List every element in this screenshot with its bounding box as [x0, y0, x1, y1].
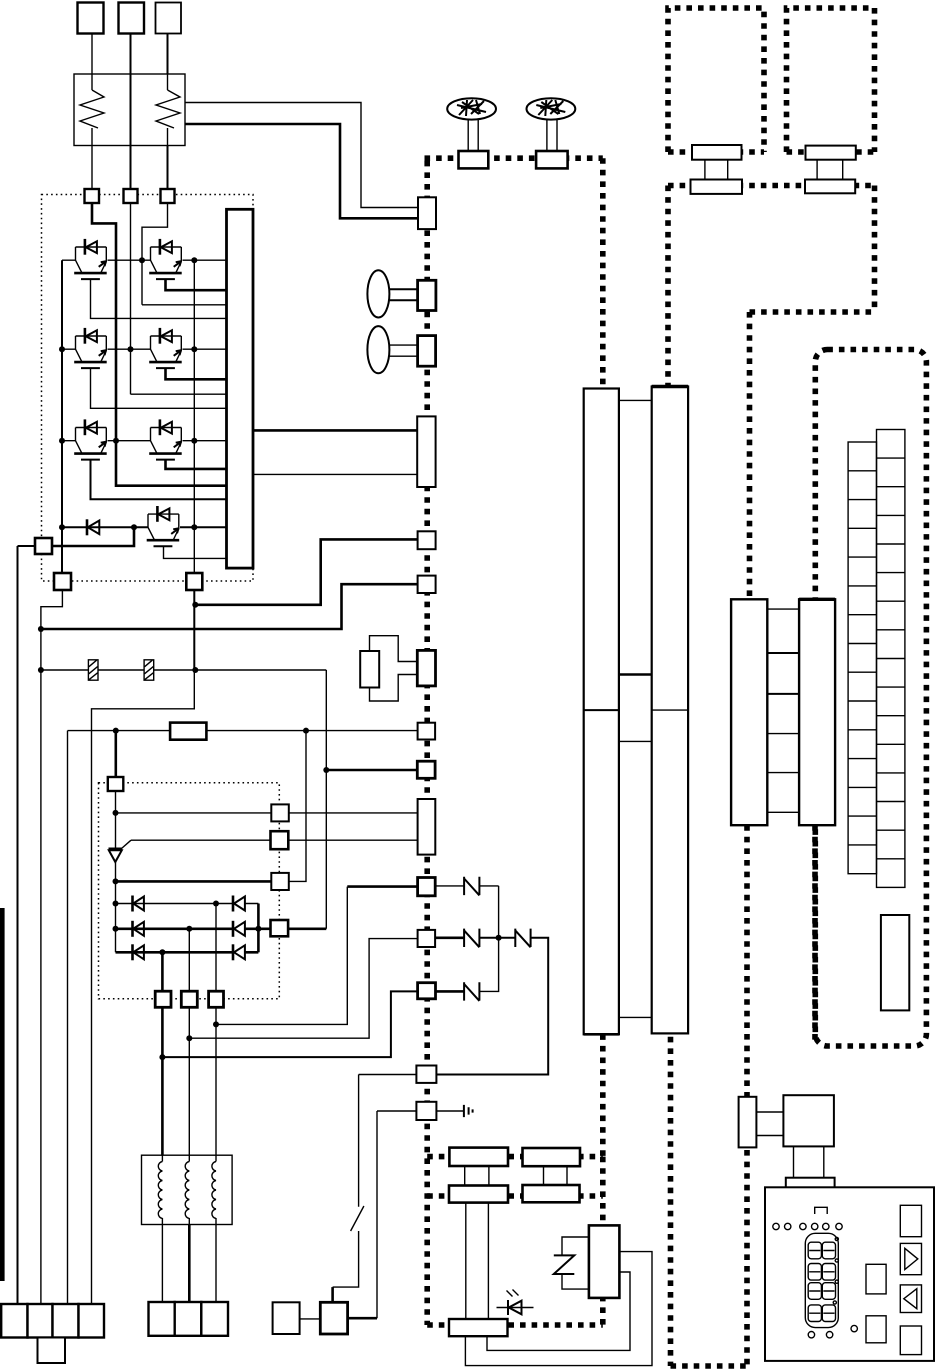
fan bay dashed row lower	[427, 1193, 603, 1199]
harness connector c11	[418, 878, 436, 896]
seven segment digits row 2	[808, 1264, 835, 1281]
DIP switch ladder left column	[848, 442, 876, 874]
diode D6 bar	[232, 944, 235, 960]
IGBT Q6	[149, 419, 182, 459]
current sensor CS1 loop	[370, 636, 418, 701]
fan bay dashed row upper	[427, 1154, 603, 1160]
node row3 bus P	[113, 438, 119, 444]
wire switch upper	[358, 1075, 360, 1207]
keypad circle right	[851, 1325, 857, 1331]
choke coil W	[212, 1155, 216, 1224]
wire harness dashed right drop to power board	[600, 158, 606, 388]
rectifier left rail	[115, 791, 117, 952]
power board mid strip bottom	[619, 1016, 652, 1018]
rectifier bottom square s4	[209, 991, 224, 1007]
fan wire outer loop	[465, 1252, 652, 1366]
fan FAN1 connector	[459, 151, 489, 168]
wire S through resistor box	[130, 74, 132, 146]
wire tap to rectifier square	[115, 731, 118, 777]
wire SqB to c10 lower	[288, 839, 417, 841]
harness connector c14	[416, 1066, 436, 1083]
module input square W	[161, 189, 175, 203]
aux box left	[273, 1302, 300, 1334]
fan connector pair 3 top	[449, 1148, 508, 1166]
rectifier dotted enclosure	[99, 783, 280, 999]
module bottom square left	[54, 573, 71, 590]
gate wire Q1 to driver	[91, 279, 227, 318]
fan FAN2 connector	[536, 151, 568, 168]
keypad bracket mark	[815, 1207, 828, 1214]
control stack mid thick dividers	[767, 653, 799, 694]
power board connector right	[652, 387, 688, 1034]
wire SqB left	[131, 839, 271, 841]
fan duct lines	[466, 1203, 489, 1319]
harness connector c6	[418, 576, 436, 593]
keypad button col right 1	[900, 1205, 921, 1236]
keypad panel	[765, 1187, 934, 1361]
keypad base pins	[795, 1194, 824, 1199]
keypad stop triangle	[904, 1289, 917, 1309]
wire resistor box to harness connector c1 lower	[185, 124, 418, 218]
node motor W tap	[213, 1021, 219, 1027]
bus W wire from square W	[142, 203, 227, 305]
seven segment digits row 1	[808, 1242, 835, 1259]
control stack mid cells	[767, 609, 799, 812]
harness dashed left drop to power board	[665, 186, 671, 387]
wire N bus to c5	[195, 539, 417, 604]
wire fuse F5 to c14	[436, 938, 548, 1075]
diode D1 bar	[131, 896, 134, 912]
motor wire U lower	[161, 1225, 163, 1303]
keypad led row	[773, 1223, 842, 1229]
IGBT Q3	[74, 328, 107, 368]
diode D3 bar	[131, 944, 134, 960]
terminal T	[156, 3, 182, 34]
keypad button mid lower	[866, 1316, 886, 1343]
power board connector left	[584, 389, 619, 1035]
LED bar	[507, 1300, 509, 1315]
keypad run triangle	[905, 1248, 918, 1269]
capacitor CT2 leads	[389, 345, 417, 356]
node fuse line mid	[192, 667, 198, 673]
IGBT Q7	[147, 506, 180, 546]
wire left drop 4	[91, 731, 93, 1304]
fan wire inner loop	[487, 1272, 630, 1350]
fan bay dashed right edge	[600, 1157, 606, 1325]
terminal block square 5	[38, 1338, 66, 1364]
node motor V tap	[186, 1035, 192, 1041]
keypad lower circles	[808, 1332, 833, 1338]
wire fuse F6 up	[479, 938, 498, 992]
keypad button col right 4	[900, 1326, 921, 1355]
wire right rail below module	[193, 590, 195, 670]
terminal block square 2	[28, 1304, 53, 1338]
power board connector right top edge	[652, 385, 688, 388]
terminal block square 3	[53, 1304, 79, 1338]
phase row 1 collector wire	[62, 259, 227, 261]
wire S to resistor box	[130, 34, 132, 75]
gate wire Q5 to driver	[91, 460, 227, 500]
wire c12 fuse feed	[435, 936, 464, 939]
control box A dotted enclosure	[668, 8, 764, 152]
diode D4 bar	[232, 896, 235, 912]
fan FAN1 blades	[457, 100, 486, 116]
bus V wire from square V	[131, 203, 227, 394]
switch SW1 blade	[351, 1206, 364, 1231]
keypad cable connector small	[739, 1097, 757, 1148]
node bridge V	[186, 926, 192, 932]
gate wire Q6 to driver	[166, 460, 227, 469]
wire U tap to c13	[162, 991, 417, 1057]
aux box right	[320, 1302, 347, 1334]
wire R to resistor box	[91, 34, 93, 75]
transformer T2 core	[817, 160, 843, 180]
seven segment digits row 3	[808, 1283, 835, 1300]
node SqC rail	[113, 878, 119, 884]
internal fan connector	[449, 1319, 508, 1336]
transformer T1 core	[705, 160, 728, 180]
power board connector left bottom edge	[584, 1033, 619, 1036]
transformer T1 top plate	[692, 145, 742, 160]
wire SqC up to precharge node	[289, 731, 306, 882]
terminal R	[78, 3, 104, 34]
DIP switch ladder right column	[877, 430, 905, 888]
power board mid strip top	[619, 399, 652, 401]
resistor RB1 zigzag	[80, 74, 104, 146]
fan bay dashed bottom	[427, 1322, 603, 1328]
node row4 left rail	[59, 524, 65, 530]
node motor U tap	[159, 1054, 165, 1060]
dashed drop below stack left	[744, 825, 750, 1366]
wire T resistor to module	[167, 146, 169, 190]
motor wire V upper	[188, 1007, 190, 1155]
harness connector c12	[418, 930, 436, 947]
harness connector c2	[418, 280, 436, 310]
node precharge right	[303, 728, 309, 734]
shield bar	[0, 908, 5, 1281]
motor wire W lower	[215, 1225, 217, 1303]
node bridge W	[213, 901, 219, 907]
module input square U	[85, 189, 100, 203]
diode bridge right link	[257, 904, 260, 953]
fan pair 4 core	[544, 1166, 568, 1185]
dashed drop below power board left	[600, 1034, 606, 1156]
node row2 right rail	[191, 346, 197, 352]
row 4 collector wire	[62, 526, 227, 528]
motor wire U upper	[161, 1007, 164, 1155]
wire c15 left	[377, 1110, 416, 1112]
control box B bottom dashed	[787, 149, 875, 155]
thermostat body	[589, 1225, 620, 1298]
right emitter rail	[193, 260, 195, 573]
harness connector c1	[418, 197, 436, 229]
ground symbol	[464, 1105, 473, 1117]
fan FAN2 stem	[547, 120, 557, 152]
wire fuse line drop to c9 node	[325, 670, 327, 929]
thyristor SCR1 gate diagonal	[122, 840, 132, 848]
motor terminal square W	[201, 1302, 228, 1336]
LED rays	[507, 1290, 519, 1297]
phase row 3 collector wire	[62, 440, 227, 442]
gate wire Q2 to driver	[166, 279, 227, 290]
wire R resistor to module	[91, 146, 93, 190]
IGBT Q1	[74, 239, 107, 279]
keypad cable links	[756, 1112, 783, 1136]
LED indicator wire	[497, 1307, 534, 1309]
wire S resistor to module	[130, 146, 132, 190]
node row3 right rail	[191, 438, 197, 444]
motor terminal square V	[175, 1302, 202, 1336]
gate wire Q3 to driver	[91, 368, 227, 408]
node DC bus left	[38, 626, 44, 632]
diode D1 triangle	[133, 897, 144, 911]
SqB gate connector	[271, 831, 289, 849]
IGBT Q4	[149, 328, 182, 368]
fan connector pair 4 bottom	[523, 1185, 580, 1202]
control stack left connector	[731, 599, 767, 825]
fuse F4	[464, 929, 479, 948]
capacitor CT1 leads	[389, 289, 417, 300]
wire W tap to c11	[216, 887, 347, 1025]
wire V tap to c12	[189, 939, 417, 1039]
harness dashed right drop	[872, 186, 878, 313]
diode D4 triangle	[234, 897, 245, 911]
node row1 rail	[113, 901, 119, 907]
node precharge tap	[113, 728, 119, 734]
wire SqA left	[116, 812, 272, 814]
keypad button mid upper	[866, 1264, 886, 1294]
thermistor Z symbol	[554, 1255, 575, 1274]
DC bus wire to c6	[41, 584, 418, 629]
module left DC square	[35, 538, 52, 554]
harness connector c3	[418, 336, 436, 367]
braking resistor unit box	[74, 74, 185, 146]
IGBT module dotted enclosure	[42, 195, 254, 582]
wire SqC left	[116, 880, 272, 883]
fan connector pair 3 bottom	[449, 1186, 508, 1203]
terminal block square 4	[79, 1304, 105, 1338]
free-wheel diode D8 triangle	[88, 521, 100, 535]
diode D3 triangle	[133, 945, 144, 959]
precharge line wire	[68, 730, 418, 732]
bus P wire from square U	[92, 203, 227, 486]
node row4 right rail	[191, 524, 197, 530]
driver board	[227, 209, 254, 568]
module input square V	[124, 189, 138, 203]
keypad button stop	[900, 1285, 921, 1313]
thermostat left wires	[562, 1237, 589, 1289]
wire left drop 3	[67, 731, 69, 1304]
harness connector c9	[417, 761, 435, 778]
phase row 2 collector wire	[62, 348, 227, 350]
node row2 rail	[113, 926, 119, 932]
IGBT Q2	[149, 239, 182, 279]
motor wire V lower	[188, 1225, 191, 1303]
node row3 left rail	[59, 438, 65, 444]
wire harness dashed bus top horizontal	[425, 155, 603, 161]
wire resistor box to harness connector c1 upper	[185, 103, 418, 208]
control box A bottom dashed	[668, 149, 764, 155]
fan pair 3 core	[465, 1166, 489, 1186]
fan FAN1 stem	[468, 120, 478, 152]
fuse F5	[515, 929, 530, 948]
IGBT Q5	[74, 419, 107, 459]
rectifier bottom square s3	[181, 991, 197, 1007]
diode D2 bar	[131, 921, 134, 937]
resistor R2	[170, 723, 206, 740]
wire fuse F4 to node	[479, 937, 515, 939]
rectifier phase wire V	[188, 929, 190, 991]
motor wire W upper	[215, 1007, 217, 1155]
rectifier input square s1	[108, 777, 124, 791]
wire c14 left	[359, 1074, 417, 1076]
power board mid strip divider 2	[619, 740, 652, 742]
fan FAN2 ellipse	[527, 98, 576, 119]
node bridge U	[159, 949, 165, 955]
harness connector c5	[418, 531, 436, 549]
wire drop to aux box	[348, 1317, 377, 1320]
keypad connector neck	[794, 1146, 824, 1177]
diode row 2 wire	[116, 927, 271, 930]
node row1 phase W tap	[139, 257, 145, 263]
harness dashed row y312	[750, 309, 875, 315]
fuse F2	[144, 660, 154, 680]
wire bottom square left drop	[41, 590, 63, 1304]
wire right rail elbow	[92, 670, 195, 731]
choke L1 box	[142, 1155, 233, 1224]
fuse F1	[88, 660, 98, 680]
driver board output wire upper	[253, 429, 417, 432]
node fuse mid	[496, 935, 502, 941]
wire c11 fuse feed	[435, 886, 498, 938]
terminal S	[119, 3, 145, 34]
gate wire Q7 to driver	[164, 546, 227, 558]
fan FAN1 ellipse	[447, 98, 496, 119]
SqA gate connector	[271, 804, 289, 821]
node bridge out	[255, 926, 261, 932]
node fuse line left	[38, 667, 44, 673]
harness dashed drop to stack	[747, 312, 753, 599]
fuse F6	[464, 982, 479, 1001]
choke coil V	[185, 1155, 189, 1224]
wire SqA to c10 upper	[289, 812, 418, 814]
left collector rail	[61, 260, 63, 573]
harness connector c10	[418, 799, 436, 855]
power board connector right divider	[652, 709, 688, 711]
wire switch lower	[333, 1231, 359, 1287]
module bottom square right	[186, 573, 202, 590]
dashed drop below stack right	[812, 825, 818, 1043]
capacitor CT2 ellipse	[367, 326, 389, 373]
fan FAN2 blades	[536, 100, 565, 116]
terminal block square 1	[1, 1304, 27, 1338]
wire c11 feed	[347, 885, 417, 888]
diode row 3 wire	[116, 951, 259, 954]
seven segment digits row 4	[808, 1305, 835, 1322]
harness connector c15	[416, 1102, 436, 1120]
node row2 left rail	[59, 346, 65, 352]
seven segment display frame	[805, 1233, 838, 1327]
harness connector c13	[418, 983, 436, 999]
fuse F3	[464, 877, 479, 896]
seven segment decimal points	[833, 1237, 838, 1304]
keypad cable connector square	[783, 1095, 834, 1146]
node row1 right rail	[191, 257, 197, 263]
transformer T2 bottom plate	[805, 180, 855, 194]
wire node to c9	[326, 769, 417, 772]
control stack right top edge	[799, 598, 835, 601]
wire c13 fuse feed	[436, 990, 465, 993]
diode D5 bar	[232, 921, 235, 937]
wire to aux box	[331, 1287, 334, 1302]
wire c15 to ground	[436, 1110, 464, 1112]
current sensor CS1 body	[360, 651, 379, 688]
wire T to resistor box	[167, 34, 169, 75]
node row2 phase V	[128, 346, 134, 352]
node SqA rail	[113, 810, 119, 816]
wire c15 drop	[376, 1111, 378, 1318]
harness connector c8	[418, 723, 436, 740]
free-wheel diode D8 bar	[86, 519, 89, 535]
rectifier bottom square s2	[155, 991, 171, 1007]
option board jumper block	[881, 915, 909, 1010]
thyristor SCR1 triangle	[109, 850, 122, 862]
resistor RB2 zigzag	[156, 74, 180, 146]
power board mid strip divider 1	[619, 673, 652, 676]
diode D6 triangle	[234, 945, 245, 959]
LED triangle	[509, 1301, 522, 1315]
motor terminal square U	[149, 1302, 175, 1336]
driver board output wire lower	[253, 473, 417, 475]
control stack right connector	[799, 599, 835, 825]
SqC connector	[271, 873, 289, 890]
dashed bottom link	[671, 1363, 748, 1369]
choke coil U	[158, 1155, 162, 1224]
row 4 emitter tap to left square	[52, 527, 134, 546]
transformer T2 top plate	[806, 146, 856, 160]
wire SqD to drop node	[288, 927, 326, 930]
SqD DC output connector	[271, 920, 289, 936]
harness connector c7	[417, 650, 435, 686]
diode D2 triangle	[133, 922, 144, 936]
keypad button run	[900, 1243, 921, 1274]
gate wire Q4 to driver	[166, 368, 227, 379]
rectifier phase wire U	[161, 952, 164, 991]
transformer T1 bottom plate	[691, 180, 743, 194]
power board connector left divider	[584, 709, 619, 711]
fan connector pair 4 top	[523, 1148, 581, 1166]
keypad connector base	[786, 1178, 835, 1194]
option board dotted enclosure	[815, 350, 926, 1047]
dashed drop below power board right	[668, 1037, 674, 1366]
wire DC square to left drop	[18, 545, 36, 547]
wire harness dashed bus vertical	[424, 161, 430, 1325]
capacitor CT1 ellipse	[367, 270, 389, 317]
diode row 1 wire	[116, 903, 259, 905]
node c9 drop	[323, 767, 329, 773]
thyristor SCR1 bar	[109, 848, 123, 850]
node row4 emitter tap	[131, 524, 137, 530]
fuse line wire	[41, 669, 326, 671]
node N bus	[192, 602, 198, 608]
wire left drop 1	[17, 546, 19, 1304]
rectifier phase wire W	[215, 904, 217, 992]
harness dashed row y185	[668, 183, 875, 189]
wire aux box link	[300, 1318, 321, 1320]
harness connector c4	[417, 416, 435, 487]
control box B dotted enclosure	[787, 8, 875, 152]
diode D5 triangle	[234, 922, 245, 936]
